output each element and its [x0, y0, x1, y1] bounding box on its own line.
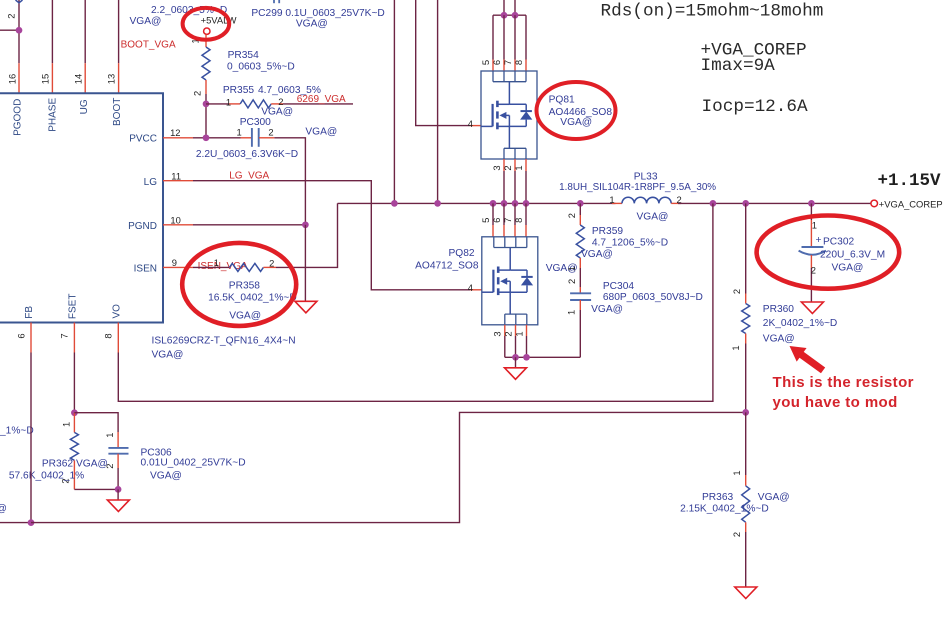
highlight ellipse PC302 [757, 216, 900, 289]
wire VO pin8 to output rail [117, 323, 119, 353]
svg-text:_1%~D: _1%~D [0, 426, 34, 437]
svg-text:PR359: PR359 [592, 226, 623, 237]
resistor PR360 [745, 203, 747, 293]
wire PQ82 ground bar [505, 356, 581, 358]
capacitor PC302 electrolytic [810, 203, 812, 220]
svg-text:1: 1 [61, 422, 72, 427]
controller IC ISL6269 box [0, 93, 163, 322]
wire PR358 to phase rail [276, 203, 338, 267]
wires PQ81 pins 5-8 [492, 15, 494, 59]
svg-text:6: 6 [491, 60, 502, 65]
svg-text:VGA@: VGA@ [150, 470, 182, 481]
svg-text:Rds(on)=15mohm~18mohm: Rds(on)=15mohm~18mohm [601, 1, 824, 21]
transistor gate bar [492, 104, 494, 127]
svg-text:2: 2 [502, 165, 513, 170]
transistor body diode [509, 103, 526, 105]
highlight ellipse +5VALW [183, 8, 230, 40]
svg-text:+5VALW: +5VALW [201, 15, 237, 26]
svg-text:5: 5 [480, 218, 491, 223]
svg-text:PGND: PGND [128, 221, 157, 232]
capacitor PC306 [117, 432, 119, 448]
svg-text:5: 5 [480, 60, 491, 65]
resistor PR354 [205, 34, 207, 47]
ground symbol PQ82 [515, 357, 517, 368]
svg-text:1.8UH_SIL104R-1R8PF_9.5A_30%: 1.8UH_SIL104R-1R8PF_9.5A_30% [559, 182, 716, 193]
svg-text:VO: VO [112, 304, 123, 319]
svg-text:VGA@: VGA@ [130, 16, 162, 27]
svg-text:VGA@: VGA@ [637, 212, 669, 223]
wire PGND to ground [304, 225, 306, 301]
wires PQ82 pins 5 6 7 8 from rail [492, 203, 494, 225]
svg-text:6: 6 [491, 218, 502, 223]
svg-text:LG: LG [144, 177, 158, 188]
svg-text:1: 1 [730, 345, 741, 350]
transistor gate lead [482, 291, 494, 293]
transistor source stub [498, 291, 510, 293]
node junction FSET [71, 409, 78, 416]
svg-text:VGA@: VGA@ [0, 504, 7, 515]
node junction PGND [302, 221, 309, 228]
wire LG pin11 to PQ82 gate [163, 180, 193, 182]
wire pin14 UG [84, 0, 86, 63]
svg-text:2: 2 [811, 265, 816, 276]
capacitor PC300 [241, 137, 252, 139]
node junctions PQ81 top [501, 12, 508, 19]
resistor PR362 [73, 413, 75, 433]
svg-text:16.5K_0402_1%~D: 16.5K_0402_1%~D [208, 293, 297, 304]
wires PQ82 pins 3 2 1 to ground bar [504, 325, 506, 336]
svg-text:1: 1 [237, 127, 242, 138]
svg-text:PR360: PR360 [763, 304, 794, 315]
svg-text:2: 2 [731, 532, 742, 537]
svg-text:0.01U_0402_25V7K~D: 0.01U_0402_25V7K~D [141, 458, 246, 469]
transistor body diode [510, 269, 527, 271]
node junction ground bar [115, 486, 122, 493]
svg-text:1: 1 [566, 310, 577, 315]
svg-text:2: 2 [104, 464, 115, 469]
svg-text:PC302: PC302 [823, 237, 854, 248]
svg-text:UG: UG [79, 99, 90, 114]
capacitor PC304 [579, 287, 581, 293]
svg-text:14: 14 [72, 74, 83, 84]
svg-text:220U_6.3V_M: 220U_6.3V_M [820, 250, 885, 261]
node junction PVCC [203, 134, 210, 141]
wire PGND pin10 [163, 224, 193, 226]
transistor channel bars [496, 101, 499, 107]
svg-text:1: 1 [513, 331, 524, 336]
svg-text:7: 7 [502, 218, 513, 223]
svg-text:BOOT: BOOT [112, 98, 123, 126]
wire PC300 to PGND corner [274, 138, 305, 225]
wire PR359 to PC304 [579, 268, 581, 287]
transistor bottom pin cells [504, 147, 526, 149]
port +VGA_COREP circle [871, 200, 878, 207]
transistor body box [482, 237, 538, 325]
wire pin16 net with junction [0, 29, 19, 31]
svg-text:+: + [816, 235, 822, 246]
svg-text:11: 11 [171, 171, 181, 182]
svg-text:1: 1 [226, 97, 231, 108]
transistor body arrow [500, 278, 507, 285]
svg-text:2: 2 [192, 91, 203, 96]
svg-text:2: 2 [566, 279, 577, 284]
svg-text:VGA@: VGA@ [581, 249, 613, 260]
transistor top pin cells [494, 247, 527, 249]
svg-text:10: 10 [170, 215, 180, 226]
svg-text:2.15K_0402_1%~D: 2.15K_0402_1%~D [680, 504, 769, 515]
transistor drain stub [498, 269, 510, 271]
svg-text:PR355: PR355 [223, 85, 254, 96]
svg-text:PVCC: PVCC [129, 134, 157, 145]
svg-text:VGA@: VGA@ [152, 349, 184, 360]
svg-text:VGA@: VGA@ [229, 311, 261, 322]
wire UG vertical to PQ81 gate [416, 0, 470, 126]
svg-text:ISL6269CRZ-T_QFN16_4X4~N: ISL6269CRZ-T_QFN16_4X4~N [152, 336, 296, 347]
wire PVCC pin12 [163, 137, 193, 139]
resistor tip (off-sheet) above pin16 [16, 0, 23, 3]
svg-text:1: 1 [513, 165, 524, 170]
svg-text:This is the resistor: This is the resistor [773, 374, 914, 391]
svg-text:Imax=9A: Imax=9A [701, 56, 776, 76]
svg-text:12: 12 [170, 127, 180, 138]
wire PC304 to ground bar [579, 310, 581, 357]
capacitor PC299 plate remnants at top edge [273, 0, 275, 3]
svg-text:VGA@: VGA@ [763, 333, 795, 344]
svg-text:PC300: PC300 [240, 117, 271, 128]
svg-text:1: 1 [566, 266, 577, 271]
net +5VALW port circle [204, 28, 210, 34]
transistor source stub [497, 125, 509, 127]
svg-text:PR354: PR354 [228, 50, 259, 61]
svg-text:8: 8 [102, 333, 113, 338]
wire pin15 PHASE [51, 0, 53, 63]
highlight ellipse PR358 [182, 243, 296, 326]
svg-text:PR362: PR362 [42, 459, 73, 470]
svg-text:VGA@: VGA@ [296, 18, 328, 29]
svg-text:0_0603_5%~D: 0_0603_5%~D [227, 61, 295, 72]
node junction FB [28, 519, 35, 526]
svg-text:+VGA_COREP: +VGA_COREP [879, 198, 943, 209]
svg-text:PQ81: PQ81 [549, 94, 575, 105]
wire PHASE vertical [393, 0, 395, 203]
wire pin13 BOOT [118, 0, 120, 63]
svg-text:BOOT_VGA: BOOT_VGA [121, 39, 176, 50]
svg-text:3: 3 [492, 331, 503, 336]
svg-text:Iocp=12.6A: Iocp=12.6A [702, 97, 809, 117]
svg-text:PR358: PR358 [229, 281, 260, 292]
svg-text:7: 7 [502, 60, 513, 65]
svg-text:2: 2 [268, 127, 273, 138]
transistor channel bars [497, 267, 500, 273]
transistor drain stub [497, 103, 509, 105]
transistor gate lead [481, 125, 493, 127]
svg-text:1: 1 [812, 220, 817, 231]
svg-text:VGA@: VGA@ [261, 106, 293, 117]
svg-text:6269_VGA: 6269_VGA [297, 94, 346, 105]
svg-text:1: 1 [609, 194, 614, 205]
svg-text:PC304: PC304 [603, 281, 634, 292]
svg-text:VGA@: VGA@ [560, 117, 592, 128]
svg-text:680P_0603_50V8J~D: 680P_0603_50V8J~D [603, 292, 703, 303]
svg-text:16: 16 [6, 74, 17, 84]
resistor PR358 [229, 263, 263, 271]
wire output rail [678, 202, 871, 204]
node junction FB/PR363 [742, 409, 749, 416]
svg-text:FB: FB [24, 306, 35, 319]
svg-text:LG_VGA: LG_VGA [229, 170, 269, 181]
wire FB pin6 feedback loop [30, 323, 32, 353]
svg-text:9: 9 [172, 257, 177, 268]
svg-text:PR363: PR363 [702, 492, 733, 503]
node junction PR354/PR355 [205, 104, 207, 138]
svg-text:AO4712_SO8: AO4712_SO8 [415, 260, 479, 271]
transistor body box [481, 71, 537, 159]
svg-text:2: 2 [566, 213, 577, 218]
ground symbol PR363 [735, 587, 757, 599]
svg-text:4.7_1206_5%~D: 4.7_1206_5%~D [592, 237, 668, 248]
svg-text:PGOOD: PGOOD [13, 99, 24, 136]
svg-text:VGA@: VGA@ [832, 262, 864, 273]
wire phase rail [338, 202, 616, 204]
wires PQ81 pins 3 2 1 to rail [503, 159, 505, 171]
svg-text:6: 6 [16, 333, 27, 338]
svg-text:FSET: FSET [68, 294, 79, 320]
ground symbol PC302 [801, 302, 823, 314]
ground symbol PGND [295, 301, 317, 313]
wire FSET junction to PC306 [74, 413, 118, 432]
transistor bottom pin cells [505, 313, 527, 315]
svg-text:2: 2 [731, 289, 742, 294]
svg-text:4: 4 [468, 282, 473, 293]
svg-text:+1.15V: +1.15V [878, 171, 942, 191]
svg-text:7: 7 [59, 333, 70, 338]
svg-text:1: 1 [731, 470, 742, 475]
svg-text:2: 2 [502, 331, 513, 336]
svg-text:VGA@: VGA@ [591, 304, 623, 315]
svg-text:2: 2 [6, 14, 17, 19]
resistor PR363 [745, 412, 747, 475]
svg-text:4: 4 [468, 118, 473, 129]
svg-text:VGA@: VGA@ [758, 492, 790, 503]
transistor top pin cells [493, 81, 526, 83]
svg-text:2.2U_0603_6.3V6K~D: 2.2U_0603_6.3V6K~D [196, 149, 298, 160]
svg-text:2: 2 [269, 258, 274, 269]
svg-text:8: 8 [513, 60, 524, 65]
svg-text:ISEN: ISEN [134, 264, 157, 275]
inductor PL33 [612, 202, 622, 204]
wire FSET pin7 [73, 323, 75, 353]
highlight ellipse PQ81 [537, 82, 616, 139]
svg-text:3: 3 [491, 165, 502, 170]
node junction on pin16 wire [16, 27, 23, 34]
resistor PR359 [579, 203, 581, 215]
svg-text:you have to mod: you have to mod [773, 394, 898, 411]
node junctions on rails [391, 200, 398, 207]
svg-text:1: 1 [104, 433, 115, 438]
ground symbol PC306 [117, 489, 119, 500]
red arrow annotation [785, 339, 828, 377]
svg-text:VGA@: VGA@ [305, 127, 337, 138]
svg-text:PHASE: PHASE [48, 98, 59, 132]
wire ground bar PR362/PC306 [74, 488, 118, 490]
wire BOOT/phase vertical [437, 0, 439, 203]
svg-text:57.6K_0402_1%: 57.6K_0402_1% [9, 471, 84, 482]
svg-text:2K_0402_1%~D: 2K_0402_1%~D [763, 318, 838, 329]
wire ISEN pin9 [163, 266, 193, 268]
svg-text:PL33: PL33 [634, 171, 658, 182]
transistor gate bar [492, 270, 494, 293]
wire PQ81 top bar [493, 14, 526, 16]
svg-text:13: 13 [106, 74, 117, 84]
node junctions ground bar [512, 354, 519, 361]
transistor body arrow [499, 112, 506, 119]
resistor PR355 [206, 103, 229, 105]
svg-text:8: 8 [513, 218, 524, 223]
svg-text:15: 15 [40, 74, 51, 84]
svg-text:1: 1 [214, 257, 219, 268]
svg-text:PQ82: PQ82 [449, 248, 475, 259]
